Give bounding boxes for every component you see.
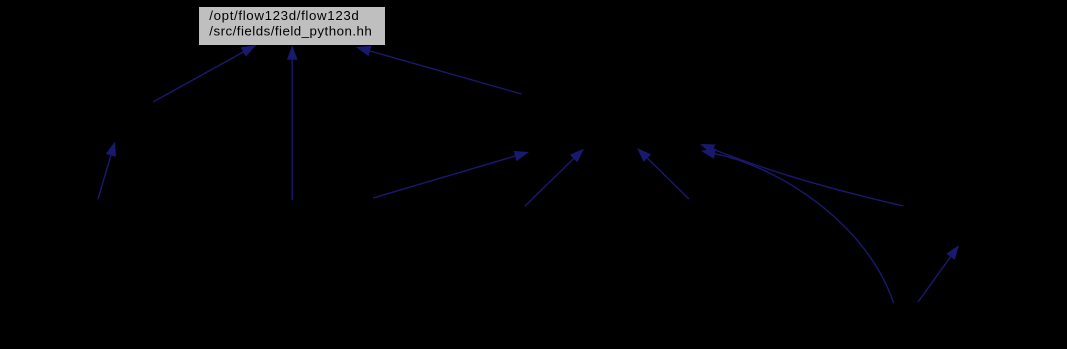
- arrow J: [918, 245, 959, 302]
- arrow E: [373, 151, 529, 198]
- arrow G: [637, 148, 689, 199]
- node box /opt/flow123d/flow123d /src/fields/field_python.hh: [199, 7, 386, 46]
- svg-text:/opt/flow123d/flow123d: /opt/flow123d/flow123d: [209, 8, 358, 23]
- arrow F: [525, 149, 584, 207]
- svg-text:/src/fields/field_python.hh: /src/fields/field_python.hh: [209, 23, 371, 38]
- arrow B: [153, 45, 256, 102]
- arrow D: [356, 46, 522, 94]
- arrow A: [98, 142, 116, 200]
- arrow I curved: [701, 149, 894, 304]
- arrow H: [700, 144, 904, 206]
- arrow C: [287, 45, 298, 200]
